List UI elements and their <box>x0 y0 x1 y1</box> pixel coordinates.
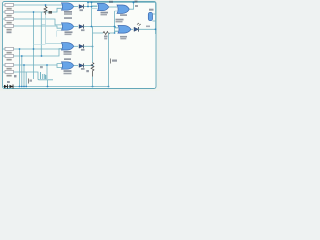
gate U3A <box>62 43 74 55</box>
wire row1 <box>3 4 62 6</box>
diode D1 <box>74 4 98 11</box>
wire row2 <box>3 8 62 12</box>
switch S8 <box>5 70 17 77</box>
bracket label bottom-left <box>29 79 33 84</box>
wire row3 <box>3 19 63 25</box>
switch S3 <box>5 17 14 23</box>
gate U5 <box>98 1 114 16</box>
switch S4 <box>5 24 14 33</box>
resistor R2 vertical <box>86 47 94 87</box>
diode D2 <box>74 24 116 31</box>
LED indicator <box>148 9 155 21</box>
switch S2 <box>5 10 14 16</box>
SUM bracket label <box>111 59 118 64</box>
U7 input jogs <box>115 27 119 32</box>
bottom bus <box>3 86 109 88</box>
switch S6 <box>5 54 14 60</box>
top bus y2 <box>88 1 156 3</box>
diode D6 LED <box>131 23 156 32</box>
vertical x114.5 <box>114 11 116 33</box>
vertical x108.5 <box>108 33 110 87</box>
wire vertical tap x41 <box>40 12 42 56</box>
resistor R1 vertical <box>44 5 47 15</box>
wire row5 <box>3 48 62 50</box>
small label near x41 <box>40 66 43 68</box>
wire U6 out to top bus <box>129 2 133 9</box>
diode D3 <box>74 44 93 51</box>
vertical x91.5 <box>91 2 93 26</box>
vertical bus x23 <box>23 65 25 87</box>
gate U6 <box>117 5 129 16</box>
wire G5 out <box>109 6 117 8</box>
wire vertical tap x33 <box>33 12 35 79</box>
gate U4A <box>62 58 74 74</box>
vertical bus x21 <box>21 56 23 87</box>
right vertical x155.5 <box>155 2 157 34</box>
label R1 <box>49 11 53 14</box>
wire row8 <box>3 72 53 87</box>
gate U1A <box>62 3 74 15</box>
vertical x88 <box>87 2 89 6</box>
vertical bus x19 <box>19 49 21 87</box>
wire G4 in2 <box>57 65 62 68</box>
gate U2A <box>62 17 74 35</box>
resistor row y33 <box>93 27 115 47</box>
vertical x47 row7 tap <box>46 65 48 79</box>
switch S5 <box>5 47 14 53</box>
bottom-left diode pair <box>3 81 14 89</box>
gate U7 <box>116 19 132 40</box>
switch S1 <box>5 3 14 9</box>
board frame <box>3 2 157 89</box>
wire row6 <box>3 49 62 56</box>
wire row7 <box>3 64 62 65</box>
vertical taps bottom cluster <box>40 72 42 79</box>
junction dots left <box>45 4 47 6</box>
vertical bus x26 <box>25 72 27 87</box>
wire row4 <box>3 26 63 28</box>
diode D4 <box>74 63 94 69</box>
G5 input stubs <box>92 6 98 9</box>
switch S7 <box>5 63 14 69</box>
